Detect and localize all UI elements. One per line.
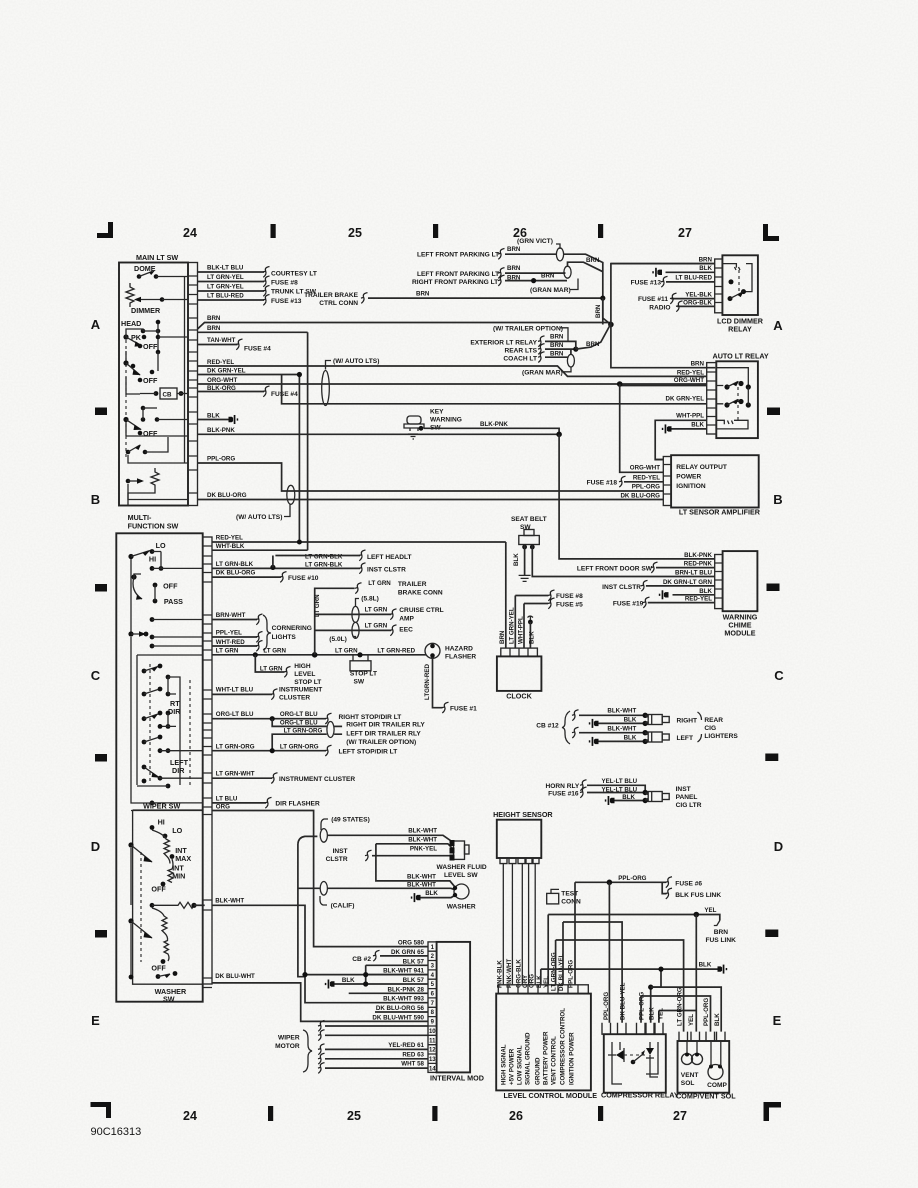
svg-text:WHT 58: WHT 58 (401, 1061, 424, 1068)
svg-text:BLK-WHT: BLK-WHT (408, 828, 437, 835)
svg-text:DK GRN-LT GRN: DK GRN-LT GRN (663, 579, 713, 586)
height sensor pin stubs (500, 858, 539, 864)
svg-text:LO: LO (172, 826, 182, 835)
svg-text:BLK-WHT: BLK-WHT (607, 725, 636, 732)
svg-text:DK GRN-YEL: DK GRN-YEL (207, 368, 246, 375)
svg-text:LT GRN: LT GRN (368, 580, 391, 587)
left riser for 49-states line (298, 844, 305, 977)
svg-text:LT GRN-YEL: LT GRN-YEL (207, 284, 244, 291)
seat belt to chime wire BRN-LT BLU (532, 545, 714, 577)
svg-text:LT GRN: LT GRN (365, 623, 388, 630)
hazard to fuse 1 (433, 658, 443, 707)
svg-text:STOP LT: STOP LT (294, 679, 321, 686)
comp/vent sol pin stubs (679, 1032, 725, 1041)
tan-wht contact (156, 350, 161, 355)
svg-text:LT GRN-YEL: LT GRN-YEL (509, 607, 516, 644)
svg-text:BLK: BLK (529, 631, 536, 644)
svg-text:INST CLSTR: INST CLSTR (367, 567, 406, 574)
svg-text:WHT-LT BLU: WHT-LT BLU (216, 687, 254, 694)
tick bottom 3 (598, 1106, 603, 1121)
rear cig lighters brace + label (698, 712, 702, 742)
wire YEL riser to comp/vent (695, 915, 697, 1032)
brn fus link arrow (714, 921, 720, 926)
LCD dimmer relay box (722, 255, 758, 315)
svg-text:OFF: OFF (151, 885, 166, 894)
svg-text:RELAY OUTPUT: RELAY OUTPUT (676, 464, 727, 471)
svg-text:HI: HI (149, 555, 156, 564)
svg-text:PPL-ORG: PPL-ORG (603, 992, 610, 1020)
test conn (547, 893, 559, 904)
svg-text:LT GRN: LT GRN (263, 648, 286, 655)
junction to LCD dimmer (608, 322, 614, 328)
interval mod box (437, 942, 471, 1073)
svg-text:COMP: COMP (707, 1082, 727, 1089)
svg-text:LT GRN: LT GRN (335, 648, 358, 655)
blk row contacts (141, 406, 146, 411)
svg-text:ORG-WHT: ORG-WHT (207, 377, 237, 384)
corner mark top-right (763, 224, 779, 241)
svg-text:INSTRUMENT CLUSTER: INSTRUMENT CLUSTER (279, 776, 355, 783)
svg-text:AMP: AMP (399, 616, 414, 623)
svg-text:(49 STATES): (49 STATES) (331, 817, 370, 824)
svg-text:PNK-BLK: PNK-BLK (497, 960, 504, 988)
svg-text:FLASHER: FLASHER (445, 654, 476, 661)
svg-text:DK BLU-YEL: DK BLU-YEL (620, 982, 627, 1020)
svg-text:DIMMER: DIMMER (131, 306, 161, 315)
svg-text:(W/ TRAILER OPTION): (W/ TRAILER OPTION) (346, 739, 416, 746)
svg-text:PPL-ORG: PPL-ORG (207, 456, 235, 463)
svg-text:BLK 57: BLK 57 (403, 958, 425, 965)
svg-text:A: A (91, 317, 101, 332)
tick bottom 2 (432, 1106, 437, 1121)
svg-text:+5V POWER: +5V POWER (509, 1048, 516, 1085)
svg-text:LEFT DIR TRAILER RLY: LEFT DIR TRAILER RLY (346, 731, 421, 738)
LCD dimmer internals (722, 264, 752, 292)
svg-text:12: 12 (429, 1048, 436, 1054)
riser to LCD dimmer relay (611, 264, 715, 368)
left dash D-E (95, 930, 107, 938)
svg-text:YEL-BLK: YEL-BLK (685, 291, 712, 298)
ppl-org switch (126, 450, 131, 455)
svg-text:LT SENSOR AMPLIFIER: LT SENSOR AMPLIFIER (679, 508, 761, 517)
svg-text:90C16313: 90C16313 (91, 1126, 142, 1138)
svg-text:LEVEL: LEVEL (294, 671, 315, 678)
svg-text:TRAILER: TRAILER (398, 581, 427, 588)
svg-text:BLK-WHT: BLK-WHT (607, 708, 636, 715)
junction lt grn up branch (312, 652, 318, 658)
svg-text:24: 24 (183, 1109, 197, 1123)
svg-text:LEFT FRONT PARKING LT: LEFT FRONT PARKING LT (417, 252, 499, 259)
clock box (497, 656, 542, 691)
dimmer resistor (126, 283, 134, 307)
svg-text:BRN: BRN (207, 315, 221, 322)
svg-text:SOL: SOL (681, 1080, 695, 1087)
svg-text:VENT CONTROL: VENT CONTROL (551, 1036, 558, 1085)
compressor relay pin stubs (602, 1023, 663, 1034)
svg-text:PASS: PASS (164, 597, 183, 606)
wire LT GRN-ORG (556, 940, 684, 1032)
svg-text:HAZARD: HAZARD (445, 646, 473, 653)
blk branch to comp (651, 969, 661, 1023)
svg-text:BLK: BLK (649, 1007, 656, 1020)
brn bus up to junction (568, 325, 610, 350)
svg-text:MAIN LT SW: MAIN LT SW (136, 253, 178, 262)
svg-text:14: 14 (429, 1066, 436, 1072)
tick top 1 (271, 224, 276, 238)
svg-text:RED 63: RED 63 (402, 1051, 424, 1058)
svg-text:BLK: BLK (691, 422, 704, 429)
svg-text:PNK-YEL: PNK-YEL (410, 846, 437, 853)
svg-text:ORG-LT BLU: ORG-LT BLU (216, 711, 254, 718)
svg-text:(W/ AUTO LTS): (W/ AUTO LTS) (333, 358, 379, 365)
svg-text:LT GRN-BLK: LT GRN-BLK (305, 554, 343, 561)
svg-text:OFF: OFF (143, 342, 158, 351)
svg-text:FUSE #10: FUSE #10 (288, 575, 319, 582)
svg-text:PPL-ORG: PPL-ORG (639, 992, 646, 1020)
clock blk antenna stub (528, 616, 534, 620)
svg-text:27: 27 (678, 226, 692, 240)
corner mark bottom-right (764, 1102, 782, 1121)
svg-text:YEL-LT BLU: YEL-LT BLU (602, 778, 638, 785)
svg-text:HI: HI (158, 818, 165, 827)
svg-text:CB #2: CB #2 (352, 956, 371, 963)
washer fluid level sw symbol (454, 841, 465, 859)
svg-text:CIG LTR: CIG LTR (676, 802, 702, 809)
svg-text:13: 13 (429, 1057, 436, 1063)
svg-text:FUSE #1: FUSE #1 (450, 706, 477, 713)
svg-text:PPL-ORG: PPL-ORG (568, 960, 575, 988)
auto lt relay internals (716, 368, 748, 404)
wiper sw inner box (133, 810, 203, 984)
svg-text:LOW SIGNAL: LOW SIGNAL (517, 1045, 524, 1085)
svg-text:FUSE #8: FUSE #8 (556, 593, 583, 600)
comp/vent sol box (678, 1041, 730, 1093)
corner mark bottom-left (91, 1102, 112, 1118)
svg-text:CORNERING: CORNERING (272, 625, 312, 632)
svg-text:FUNCTION SW: FUNCTION SW (128, 522, 179, 531)
svg-text:SEAT BELT: SEAT BELT (511, 516, 547, 523)
svg-text:ORG: ORG (216, 804, 230, 811)
cornering contacts (150, 617, 155, 622)
svg-text:CB #12: CB #12 (536, 723, 559, 730)
svg-text:LT GRN-BLK: LT GRN-BLK (216, 561, 254, 568)
svg-text:RIGHT STOP/DIR LT: RIGHT STOP/DIR LT (339, 714, 402, 721)
svg-text:BLK: BLK (714, 1013, 721, 1026)
svg-text:BRN: BRN (507, 246, 521, 253)
DK GRN-YEL jog down to auto lt relay (282, 375, 707, 404)
svg-text:A: A (773, 318, 783, 333)
svg-text:COACH LT: COACH LT (503, 356, 537, 363)
svg-text:PNK-WHT: PNK-WHT (506, 959, 513, 988)
svg-text:DK BLU-WHT 590: DK BLU-WHT 590 (372, 1014, 424, 1021)
vertical BRN2 down to mfs (307, 332, 309, 550)
compressor relay box (604, 1034, 666, 1093)
svg-text:YEL: YEL (704, 907, 716, 914)
clock riser from red-yel line (505, 542, 507, 648)
svg-text:YEL: YEL (658, 1008, 665, 1020)
svg-text:D: D (774, 839, 783, 854)
svg-text:DK BLU-ORG: DK BLU-ORG (620, 493, 660, 500)
inner bus line (184, 277, 186, 464)
cb 12 brace (562, 711, 570, 744)
junction for high level stop lt (253, 652, 258, 657)
svg-text:LTGRN-RED: LTGRN-RED (424, 663, 431, 700)
left cig lighter symbol (645, 733, 648, 742)
svg-text:BATTERY POWER: BATTERY POWER (543, 1031, 550, 1085)
wire BLK-WHT washer fluid 1 (298, 835, 453, 844)
svg-text:CB: CB (163, 392, 172, 399)
LCD dimmer pin column (715, 259, 723, 313)
svg-text:COMPRESSOR CONTROL: COMPRESSOR CONTROL (560, 1008, 567, 1085)
washer sw contacts (156, 974, 161, 979)
svg-text:HEIGHT SENSOR: HEIGHT SENSOR (493, 810, 553, 819)
svg-text:FUSE #19: FUSE #19 (613, 601, 644, 608)
svg-text:LT GRN-WHT: LT GRN-WHT (216, 771, 255, 778)
svg-text:BLK: BLK (342, 977, 355, 984)
svg-text:E: E (773, 1013, 782, 1028)
svg-text:DIR: DIR (172, 766, 185, 775)
svg-text:CLOCK: CLOCK (506, 692, 532, 701)
svg-text:WHT-PPL: WHT-PPL (676, 413, 704, 420)
svg-text:YEL-RED 61: YEL-RED 61 (388, 1042, 424, 1049)
hazard flasher (425, 643, 440, 658)
svg-text:MAX: MAX (175, 854, 191, 863)
left dash C-D (95, 754, 107, 762)
svg-text:SIGNAL GROUND: SIGNAL GROUND (525, 1032, 532, 1085)
svg-text:RED-YEL: RED-YEL (677, 370, 704, 377)
svg-text:(GRAN MAR): (GRAN MAR) (530, 287, 571, 294)
svg-text:WARNING: WARNING (430, 417, 462, 424)
svg-text:FUSE #8: FUSE #8 (271, 280, 298, 287)
svg-text:C: C (774, 668, 784, 683)
svg-text:INSTRUMENT: INSTRUMENT (279, 687, 322, 694)
svg-text:DK BLU-WHT: DK BLU-WHT (215, 973, 255, 980)
svg-text:LT GRN-ORG: LT GRN-ORG (677, 987, 684, 1026)
svg-text:BRN: BRN (595, 304, 602, 318)
svg-text:BRAKE CONN: BRAKE CONN (398, 590, 443, 597)
wire BLK FUS LINK (662, 882, 666, 893)
svg-text:RED-YEL: RED-YEL (685, 596, 712, 603)
svg-text:LT GRN-YEL: LT GRN-YEL (207, 274, 244, 281)
inst panel cig ltr symbol (645, 793, 648, 801)
svg-text:DIR FLASHER: DIR FLASHER (275, 801, 320, 808)
svg-text:(5.8L): (5.8L) (361, 596, 379, 603)
dimmer wiper arrow (136, 299, 162, 301)
svg-text:LEFT: LEFT (677, 735, 693, 742)
left dash B-C (95, 584, 107, 592)
wire to junction (564, 254, 611, 324)
svg-text:FUSE #4: FUSE #4 (244, 346, 271, 353)
warning chime module box (723, 551, 758, 611)
svg-text:BLK-WHT 993: BLK-WHT 993 (383, 996, 424, 1003)
dashed travel line (125, 340, 127, 458)
svg-text:OFF: OFF (151, 964, 166, 973)
svg-text:RADIO: RADIO (649, 305, 670, 312)
svg-text:BLK-WHT: BLK-WHT (407, 873, 436, 880)
svg-text:DK GRN-YEL: DK GRN-YEL (666, 396, 705, 403)
svg-text:PPL-ORG: PPL-ORG (618, 875, 646, 882)
svg-text:HEAD: HEAD (121, 319, 141, 328)
svg-text:MOTOR: MOTOR (275, 1043, 300, 1050)
svg-text:MIN: MIN (172, 872, 185, 881)
wire PPL-ORG risers to compressor relay (608, 882, 610, 1023)
svg-text:11: 11 (429, 1038, 436, 1044)
svg-text:27: 27 (673, 1109, 687, 1123)
cornering lights brace (263, 615, 271, 650)
svg-text:LEVEL SW: LEVEL SW (444, 872, 478, 879)
height sensor wires down (503, 864, 535, 985)
svg-text:BRN: BRN (550, 334, 564, 341)
right dash A-B (767, 408, 780, 416)
svg-text:24: 24 (183, 226, 197, 240)
svg-text:BLK: BLK (699, 588, 712, 595)
svg-text:BLK-WHT: BLK-WHT (215, 898, 244, 905)
svg-text:OFF: OFF (163, 582, 178, 591)
svg-text:FUSE #4: FUSE #4 (271, 391, 298, 398)
BLK-PNK riser to warning chime (559, 434, 715, 559)
svg-text:PANEL: PANEL (676, 794, 698, 801)
compressor relay internals (612, 1042, 622, 1084)
relay output power ignition box (671, 455, 759, 507)
svg-text:INTERVAL MOD: INTERVAL MOD (430, 1074, 484, 1083)
mfs pin column (203, 537, 212, 984)
svg-text:GROUND: GROUND (535, 1057, 542, 1085)
rt dir dashed box (189, 680, 191, 785)
tick top 2 (433, 224, 438, 238)
svg-text:TAN-WHT: TAN-WHT (207, 337, 236, 344)
svg-text:YEL: YEL (543, 976, 550, 988)
right dash B-C (767, 584, 780, 592)
svg-text:FUSE #16: FUSE #16 (548, 791, 579, 798)
svg-text:DK BLU-ORG: DK BLU-ORG (207, 492, 247, 499)
svg-text:RED-YEL: RED-YEL (216, 535, 243, 542)
riser blk-wht down to interval pin7 (305, 975, 428, 1003)
svg-text:SW: SW (354, 679, 365, 686)
seat belt sw symbol (524, 530, 534, 536)
oval coach (567, 354, 574, 367)
clock pin row (501, 648, 538, 656)
main lt sw pin column (188, 263, 198, 506)
svg-text:BRN-LT BLU: BRN-LT BLU (675, 569, 713, 576)
svg-text:MODULE: MODULE (724, 629, 755, 638)
svg-text:LEFT FRONT DOOR SW: LEFT FRONT DOOR SW (577, 566, 653, 573)
svg-text:WASHER: WASHER (447, 904, 476, 911)
comp circle (708, 1065, 723, 1080)
svg-text:LT GRN: LT GRN (260, 666, 283, 673)
fuse 8 clock (548, 590, 555, 601)
svg-text:25: 25 (348, 226, 362, 240)
svg-text:26: 26 (509, 1109, 523, 1123)
svg-text:RELAY: RELAY (728, 325, 752, 334)
svg-text:(GRN VICT): (GRN VICT) (517, 238, 553, 245)
svg-text:BRN: BRN (550, 342, 564, 349)
ltblu/org contacts (150, 801, 155, 806)
svg-text:LT BLU: LT BLU (216, 796, 238, 803)
svg-text:LT GRN-ORG: LT GRN-ORG (280, 744, 319, 751)
svg-text:BLK-PNK: BLK-PNK (684, 552, 712, 559)
vertical RED-YEL main to mfs (298, 375, 300, 543)
left dash A-B (95, 408, 107, 416)
svg-text:CLSTR: CLSTR (326, 856, 348, 863)
svg-text:BLK: BLK (699, 962, 712, 969)
svg-text:CIG: CIG (704, 725, 716, 732)
svg-text:INST: INST (333, 848, 348, 855)
trailer brake conn (355, 583, 362, 594)
wire brn parking 1 (505, 253, 556, 255)
svg-text:LT BLU-RED: LT BLU-RED (675, 275, 712, 282)
vent sol circles (682, 1054, 693, 1065)
svg-text:SW: SW (163, 995, 175, 1004)
junction of BLK-PNK (556, 432, 562, 438)
svg-text:HIGH SIGNAL: HIGH SIGNAL (501, 1044, 508, 1085)
svg-text:BRN: BRN (586, 341, 600, 348)
svg-text:PPL-ORG: PPL-ORG (632, 484, 660, 491)
wiper resistor chain 1 (152, 830, 170, 864)
svg-text:BLK-WHT 941: BLK-WHT 941 (383, 968, 424, 975)
CB circuit breaker (160, 388, 177, 399)
rheostat bottom (126, 479, 131, 484)
svg-text:LT GRN: LT GRN (314, 594, 321, 617)
svg-text:B: B (91, 492, 100, 507)
svg-text:LT GRN-RED: LT GRN-RED (377, 648, 415, 655)
svg-text:BLK-PNK 28: BLK-PNK 28 (388, 986, 425, 993)
svg-text:FUSE #6: FUSE #6 (675, 881, 702, 888)
svg-text:INST: INST (676, 786, 691, 793)
svg-text:CONN: CONN (561, 899, 581, 906)
svg-text:EEC: EEC (399, 627, 413, 634)
svg-text:FUSE #13: FUSE #13 (631, 280, 662, 287)
svg-text:ORG: ORG (529, 974, 536, 988)
height sensor box (497, 820, 542, 858)
svg-text:ORG-BLK: ORG-BLK (683, 300, 712, 307)
svg-text:C: C (91, 668, 101, 683)
svg-text:E: E (91, 1013, 100, 1028)
level control module pin row (498, 985, 588, 994)
svg-text:ORG-WHT: ORG-WHT (674, 377, 704, 384)
svg-text:RED-YEL: RED-YEL (633, 475, 660, 482)
svg-text:POWER: POWER (676, 474, 701, 481)
svg-text:WHT-RED: WHT-RED (216, 639, 245, 646)
oval calif (320, 882, 327, 896)
svg-text:BLK-WHT: BLK-WHT (408, 837, 437, 844)
svg-text:BLK 57: BLK 57 (403, 977, 425, 984)
svg-text:LT GRN-BLK: LT GRN-BLK (305, 562, 343, 569)
svg-text:B: B (773, 492, 782, 507)
svg-text:ORG 580: ORG 580 (398, 940, 425, 947)
svg-text:BLK: BLK (699, 265, 712, 272)
svg-text:WIPER SW: WIPER SW (143, 802, 180, 811)
svg-text:BLK-PNK: BLK-PNK (480, 421, 508, 428)
fuse 5 clock (548, 598, 555, 609)
svg-text:RED-YEL: RED-YEL (207, 359, 234, 366)
svg-text:CTRL CONN: CTRL CONN (319, 300, 358, 307)
svg-text:LIGHTS: LIGHTS (272, 634, 297, 641)
svg-text:(CALIF): (CALIF) (331, 903, 355, 910)
oval 49 states (320, 829, 327, 843)
svg-text:TRAILER BRAKE: TRAILER BRAKE (304, 292, 358, 299)
svg-text:IGNITION: IGNITION (676, 483, 706, 490)
svg-text:LIGHTERS: LIGHTERS (704, 733, 738, 740)
svg-text:BRN: BRN (207, 325, 221, 332)
svg-text:BLK: BLK (624, 734, 637, 741)
eec (352, 622, 359, 638)
svg-text:ORG-LT BLU: ORG-LT BLU (280, 720, 318, 727)
svg-text:LEVEL CONTROL MODULE: LEVEL CONTROL MODULE (504, 1091, 598, 1100)
main lt sw box (119, 263, 188, 506)
svg-text:BRN: BRN (699, 257, 713, 264)
svg-text:RED-PNK: RED-PNK (684, 561, 713, 568)
wire DK BLU-YEL (563, 922, 622, 1023)
